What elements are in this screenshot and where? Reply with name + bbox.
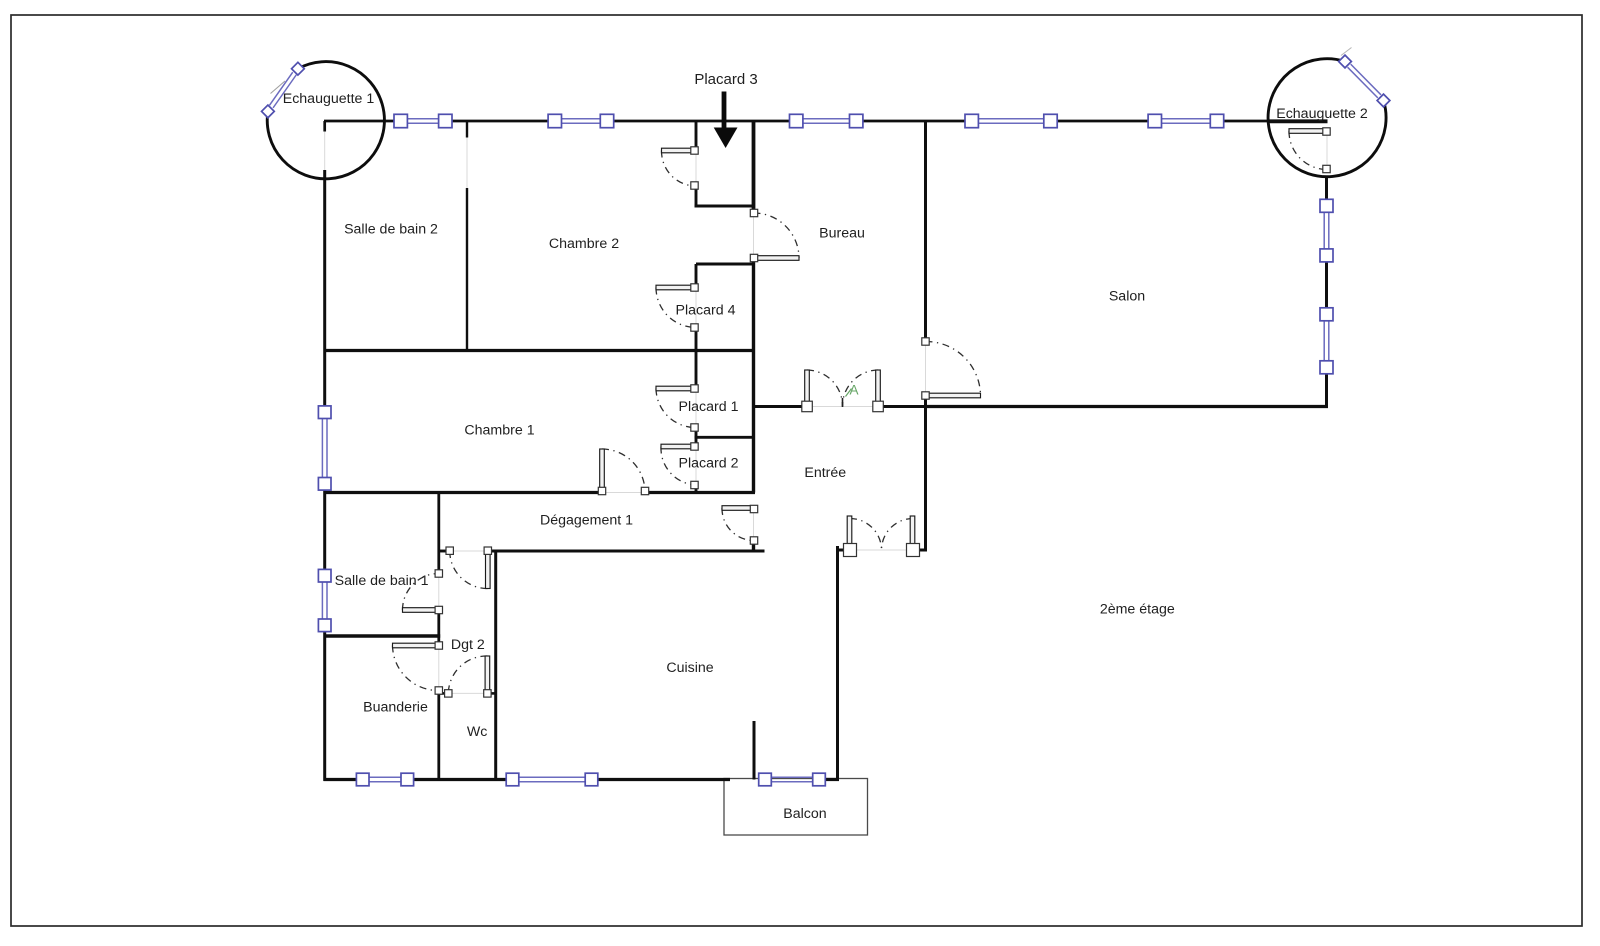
svg-text:Echauguette 2: Echauguette 2 (1276, 106, 1368, 122)
svg-text:Salle de bain 1: Salle de bain 1 (335, 573, 429, 589)
svg-text:Wc: Wc (467, 724, 488, 740)
svg-text:Placard 2: Placard 2 (679, 456, 739, 472)
svg-text:Echauguette 1: Echauguette 1 (283, 91, 375, 107)
svg-text:Chambre 1: Chambre 1 (464, 423, 534, 439)
svg-text:Placard 3: Placard 3 (694, 71, 757, 88)
svg-text:Entrée: Entrée (804, 465, 846, 481)
svg-text:Balcon: Balcon (783, 806, 826, 822)
svg-text:Placard 4: Placard 4 (676, 303, 736, 319)
svg-text:Dégagement 1: Dégagement 1 (540, 513, 633, 529)
svg-text:Buanderie: Buanderie (363, 700, 428, 716)
svg-text:Cuisine: Cuisine (666, 660, 713, 676)
svg-text:2ème étage: 2ème étage (1100, 602, 1175, 618)
svg-text:Chambre 2: Chambre 2 (549, 236, 619, 252)
svg-text:Bureau: Bureau (819, 226, 865, 242)
svg-text:Placard 1: Placard 1 (679, 399, 739, 415)
svg-text:Salon: Salon (1109, 289, 1145, 305)
svg-text:Salle de bain 2: Salle de bain 2 (344, 222, 438, 238)
svg-text:Dgt 2: Dgt 2 (451, 637, 485, 653)
